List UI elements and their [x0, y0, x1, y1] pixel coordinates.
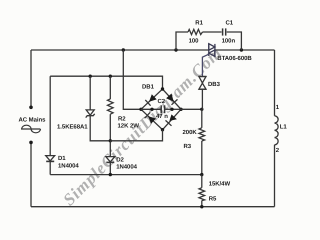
capacitor C2	[161, 105, 164, 113]
svg-text:47 n: 47 n	[156, 113, 168, 120]
svg-text:15K/4W: 15K/4W	[209, 180, 231, 187]
snubber junction dot left	[174, 48, 177, 51]
bridge DB1 diamond edges	[141, 89, 181, 130]
svg-text:1: 1	[276, 104, 280, 111]
wire bridge middle right	[165, 108, 181, 110]
bridge diode top-right	[166, 94, 177, 105]
wire bridge bottom to node	[110, 130, 162, 141]
wire lower horizontal D1-D2-R3	[50, 174, 202, 176]
wire left rail upper	[30, 50, 32, 107]
svg-text:D2: D2	[116, 157, 124, 164]
svg-text:12K 2W: 12K 2W	[118, 122, 140, 129]
junction dot C2 right pin	[170, 108, 173, 111]
junction dot R2/zener/D2/bridge-bottom node	[109, 139, 112, 142]
wire right rail	[274, 50, 276, 116]
wire top rail	[31, 49, 209, 51]
bridge diode bottom-right	[166, 114, 177, 125]
TVS diode 1.5KE68A1	[86, 110, 95, 118]
bridge diode top-left	[145, 94, 156, 106]
svg-text:1.5KE68A1: 1.5KE68A1	[57, 124, 88, 131]
resistor R5	[199, 175, 205, 207]
junction dot zener tap	[89, 75, 92, 78]
junction dot bridge top vertex	[161, 87, 164, 90]
junction dot R3/R5	[200, 173, 203, 176]
svg-text:1N4004: 1N4004	[116, 163, 137, 170]
svg-text:DB3: DB3	[208, 81, 221, 88]
svg-text:R5: R5	[209, 196, 217, 203]
svg-text:C2: C2	[158, 98, 166, 105]
bridge diode bottom-left	[145, 112, 156, 123]
svg-text:AC Mains: AC Mains	[19, 117, 47, 124]
svg-text:R1: R1	[195, 19, 203, 26]
diode D2	[106, 157, 115, 163]
wire left rail lower	[30, 143, 32, 207]
AC source V1	[21, 106, 41, 145]
snubber junction dot right	[240, 48, 243, 51]
wire C1 to right riser	[227, 32, 242, 50]
wire sub-rail	[50, 76, 162, 89]
junction dot R5 bottom	[200, 205, 203, 208]
svg-text:C1: C1	[226, 20, 234, 27]
inductor L1	[275, 116, 279, 145]
svg-text:D1: D1	[58, 155, 66, 162]
junction dot R2 tap	[109, 75, 112, 78]
junction dot bridge bottom vertex	[161, 128, 164, 131]
svg-text:200K: 200K	[183, 129, 198, 136]
triac U1 BTA06-600B	[209, 43, 215, 56]
svg-text:R3: R3	[184, 143, 192, 150]
wire D1 branch	[49, 76, 51, 155]
diac DB3	[199, 77, 206, 90]
TVS diode 1.5KE68A1 branch wire	[89, 76, 91, 110]
wire bridge right to DB3/R3 column	[181, 108, 202, 110]
junction dot main rail to bridge	[122, 48, 125, 51]
svg-text:2: 2	[276, 147, 280, 154]
svg-text:BTA06-600B: BTA06-600B	[217, 55, 252, 62]
svg-text:100n: 100n	[222, 38, 236, 45]
wire DB3 to junction	[201, 89, 203, 109]
wire bottom rail	[31, 206, 275, 208]
junction dot D2 bottom	[109, 173, 112, 176]
diode D1	[46, 156, 55, 162]
resistor R3	[199, 109, 205, 174]
svg-text:1N4004: 1N4004	[58, 163, 79, 170]
capacitor C1	[223, 28, 226, 35]
wire snubber left riser	[176, 32, 188, 50]
wire bridge left feed	[123, 50, 141, 109]
resistor R1	[188, 29, 203, 34]
wire bridge middle left	[141, 108, 161, 110]
junction dot bridge left vertex	[139, 108, 142, 111]
wire triac gate	[202, 54, 208, 76]
wire R1 to C1	[203, 31, 222, 33]
junction dot C2 left pin	[150, 108, 153, 111]
junction dot bridge right vertex	[179, 108, 182, 111]
svg-text:100: 100	[189, 38, 200, 45]
wire D2 branch	[109, 141, 111, 157]
resistor R2	[108, 76, 114, 141]
svg-text:R2: R2	[118, 116, 126, 123]
svg-text:L1: L1	[280, 123, 288, 130]
junction dot DB3/R3	[200, 108, 203, 111]
svg-text:DB1: DB1	[142, 83, 155, 90]
